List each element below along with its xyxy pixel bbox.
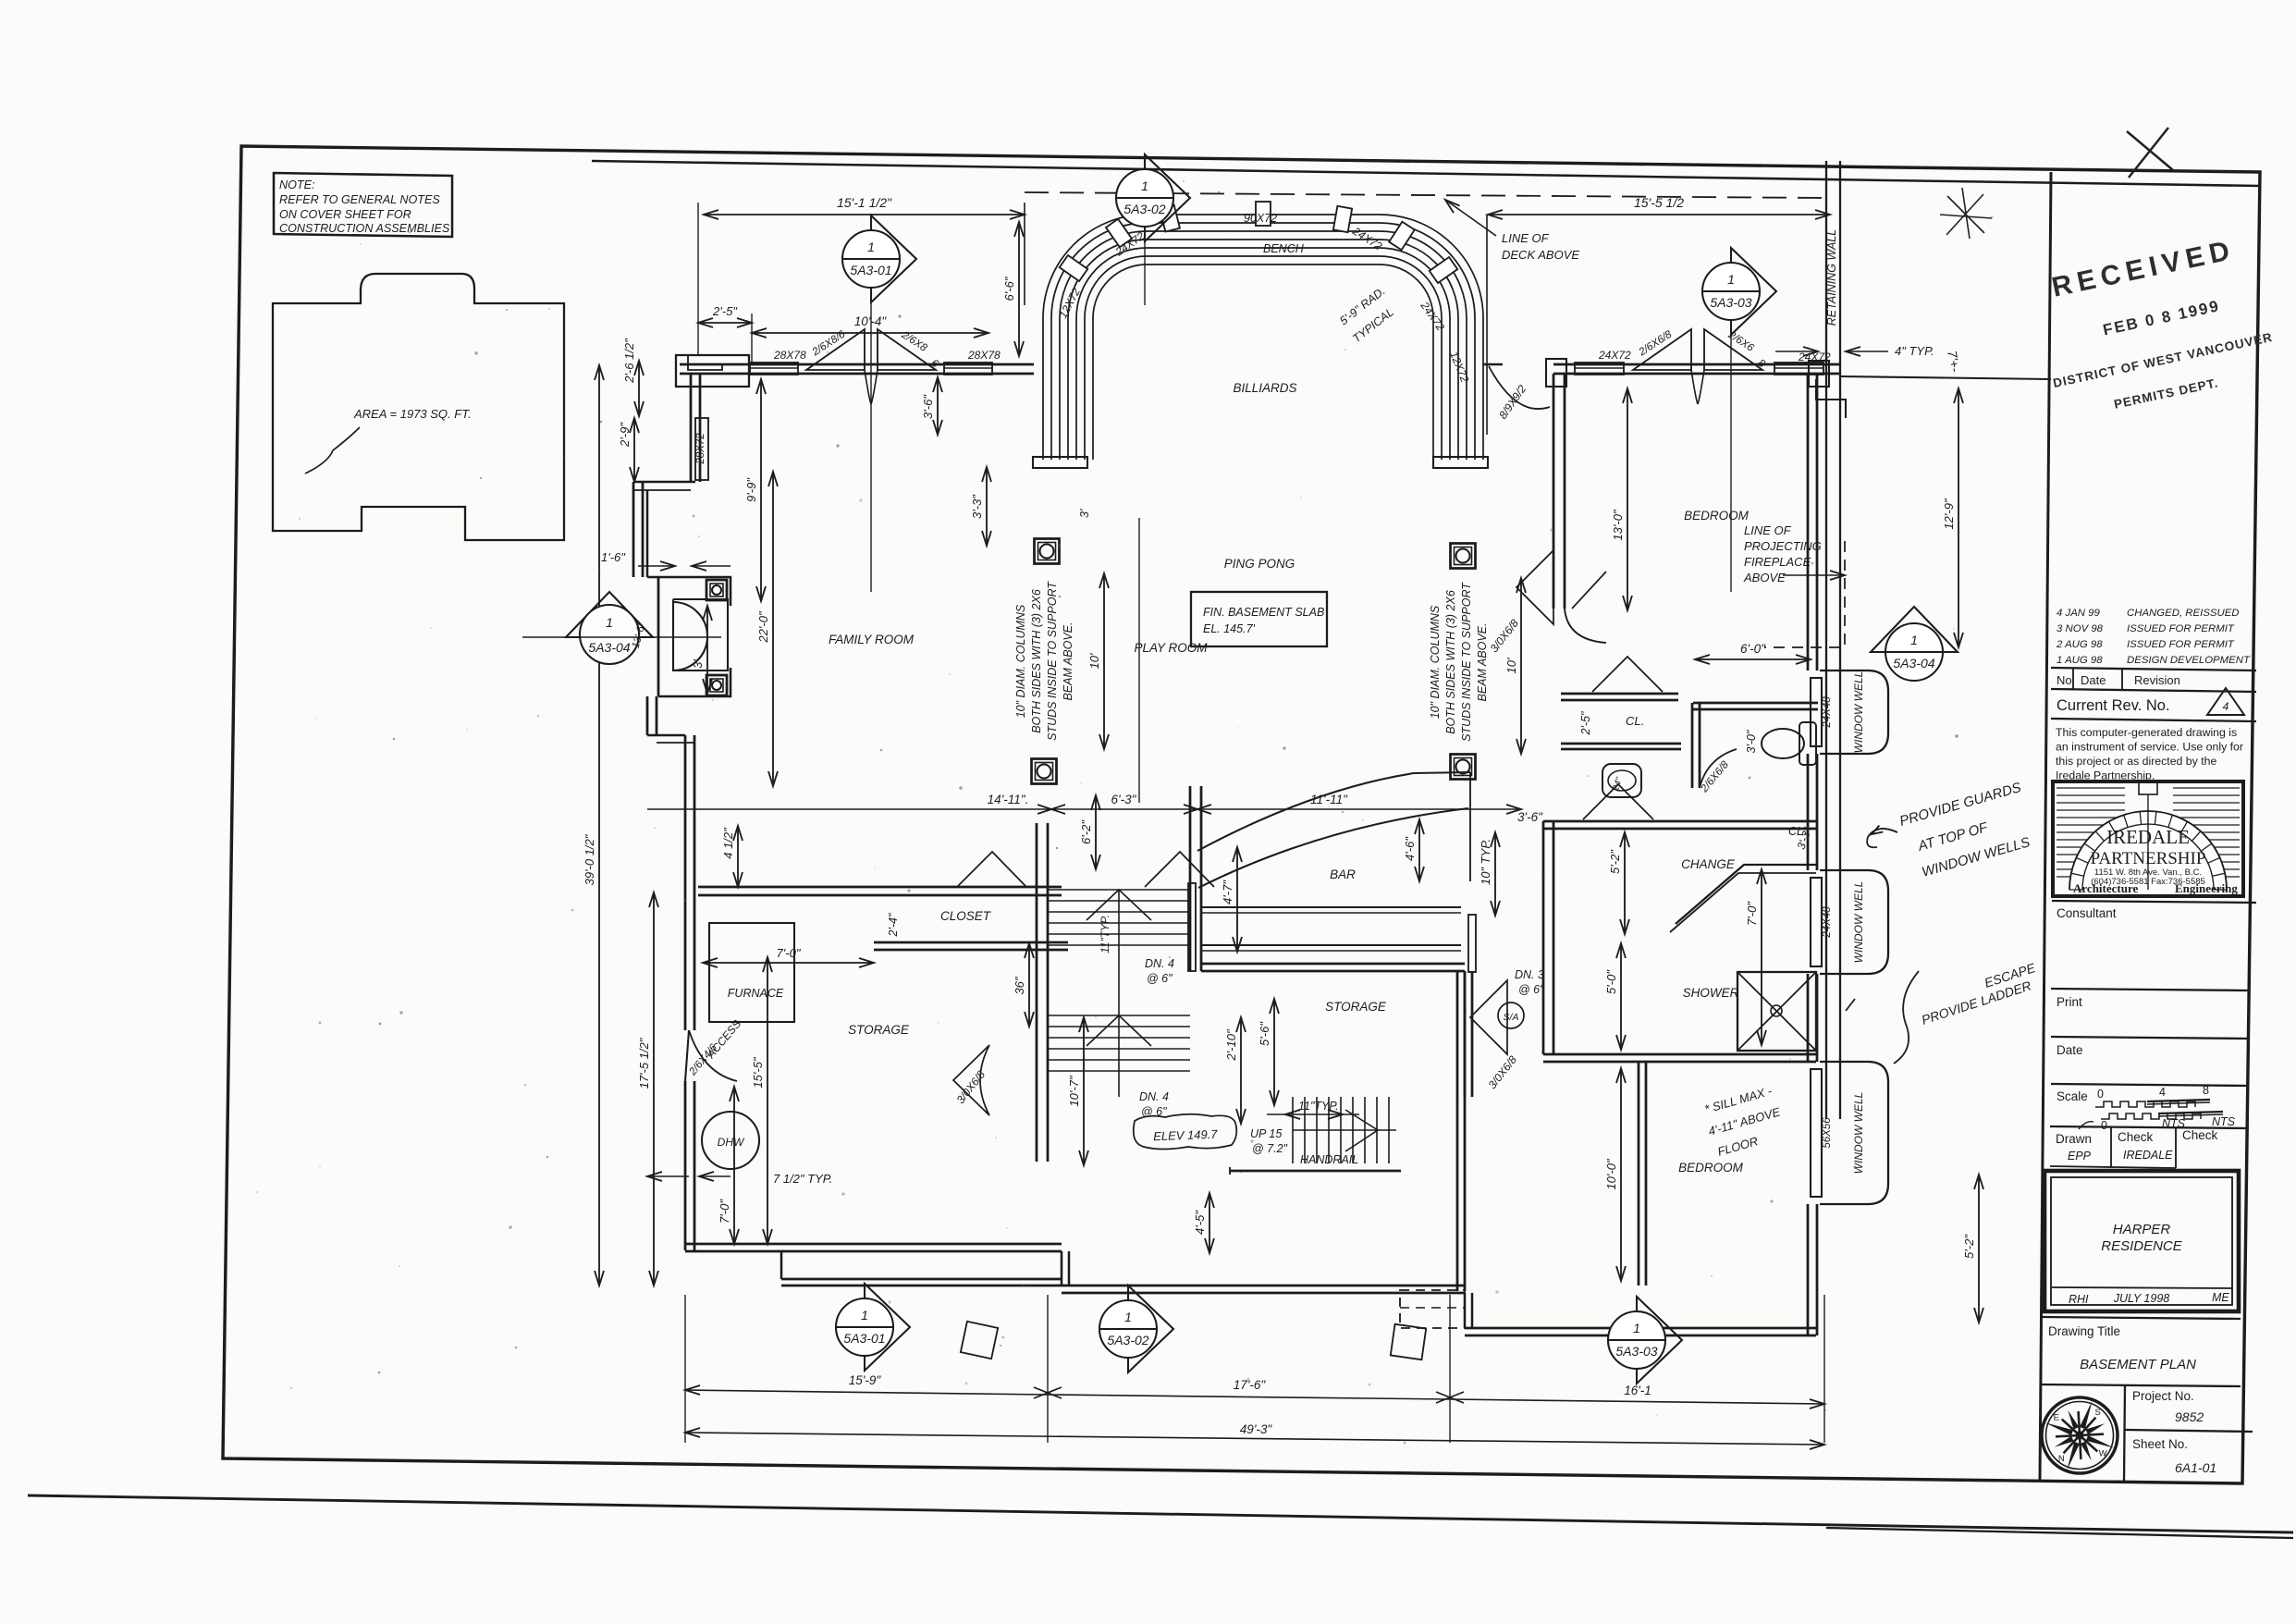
svg-text:STUDS INSIDE TO SUPPORT: STUDS INSIDE TO SUPPORT bbox=[1460, 582, 1473, 742]
svg-text:39'-0 1/2": 39'-0 1/2" bbox=[583, 833, 596, 885]
svg-text:@ 6": @ 6" bbox=[1147, 972, 1173, 985]
svg-text:28X78: 28X78 bbox=[967, 349, 1001, 362]
svg-text:CHANGE: CHANGE bbox=[1681, 857, 1736, 871]
svg-text:PROJECTING: PROJECTING bbox=[1744, 539, 1822, 553]
svg-text:28X78: 28X78 bbox=[773, 349, 806, 362]
svg-text:24X48: 24X48 bbox=[1822, 696, 1833, 729]
svg-text:ME: ME bbox=[2212, 1291, 2229, 1304]
svg-text:Project No.: Project No. bbox=[2132, 1389, 2194, 1403]
svg-text:3'-6": 3'-6" bbox=[921, 394, 935, 419]
svg-text:Architecture: Architecture bbox=[2073, 881, 2138, 895]
svg-text:WINDOW WELL: WINDOW WELL bbox=[1852, 671, 1865, 754]
svg-text:2'-10": 2'-10" bbox=[1224, 1028, 1238, 1062]
svg-text:9'-9": 9'-9" bbox=[744, 477, 758, 502]
svg-text:5A3-04: 5A3-04 bbox=[1893, 656, 1934, 671]
svg-text:49'-3": 49'-3" bbox=[1240, 1422, 1273, 1436]
svg-text:STORAGE: STORAGE bbox=[848, 1023, 910, 1037]
svg-text:HARPER: HARPER bbox=[2113, 1222, 2171, 1237]
svg-text:NTS: NTS bbox=[2212, 1115, 2236, 1128]
svg-text:RETAINING WALL: RETAINING WALL bbox=[1825, 229, 1838, 326]
svg-text:STUDS INSIDE TO SUPPORT: STUDS INSIDE TO SUPPORT bbox=[1046, 581, 1059, 741]
svg-text:28X72: 28X72 bbox=[695, 433, 706, 465]
svg-text:36": 36" bbox=[1013, 976, 1026, 994]
svg-text:EL. 145.7': EL. 145.7' bbox=[1203, 622, 1256, 635]
svg-text:10': 10' bbox=[1504, 658, 1518, 673]
svg-text:FIREPLACE: FIREPLACE bbox=[1744, 555, 1811, 569]
svg-text:Print: Print bbox=[2057, 995, 2082, 1009]
svg-text:BEAM ABOVE.: BEAM ABOVE. bbox=[1062, 622, 1074, 701]
svg-text:13'-0": 13'-0" bbox=[1611, 509, 1625, 541]
svg-text:Sheet No.: Sheet No. bbox=[2132, 1437, 2188, 1451]
svg-text:90X72: 90X72 bbox=[1244, 212, 1277, 225]
svg-text:DN. 3: DN. 3 bbox=[1515, 968, 1544, 981]
svg-text:4'-5": 4'-5" bbox=[1193, 1210, 1207, 1235]
svg-text:BEDROOM: BEDROOM bbox=[1684, 509, 1750, 523]
svg-text:PING PONG: PING PONG bbox=[1224, 557, 1295, 571]
svg-text:10" DIAM. COLUMNS: 10" DIAM. COLUMNS bbox=[1429, 605, 1442, 719]
svg-text:Drawing Title: Drawing Title bbox=[2048, 1324, 2120, 1338]
svg-text:5'-2": 5'-2" bbox=[1962, 1234, 1976, 1259]
svg-text:22'-0": 22'-0" bbox=[756, 610, 770, 644]
svg-text:SHOWER: SHOWER bbox=[1683, 986, 1739, 1000]
svg-text:2 AUG 98: 2 AUG 98 bbox=[2056, 639, 2103, 650]
svg-text:11'-11": 11'-11" bbox=[1310, 793, 1348, 806]
svg-text:No: No bbox=[2057, 673, 2072, 687]
svg-text:Scale: Scale bbox=[2057, 1089, 2088, 1103]
svg-text:4" TYP.: 4" TYP. bbox=[1895, 344, 1934, 358]
svg-text:RHI: RHI bbox=[2069, 1293, 2089, 1306]
svg-text:IREDALE: IREDALE bbox=[2123, 1149, 2173, 1162]
svg-text:5'-0": 5'-0" bbox=[1604, 969, 1618, 994]
svg-text:4 1/2": 4 1/2" bbox=[721, 827, 735, 859]
svg-text:4: 4 bbox=[2223, 700, 2229, 713]
svg-text:5A3-03: 5A3-03 bbox=[1615, 1344, 1657, 1359]
svg-text:N: N bbox=[2058, 1454, 2065, 1464]
svg-text:Current Rev. No.: Current Rev. No. bbox=[2057, 697, 2170, 714]
svg-text:LINE OF: LINE OF bbox=[1744, 523, 1792, 537]
svg-text:10" TYP.: 10" TYP. bbox=[1479, 839, 1492, 885]
svg-text:2'-5": 2'-5" bbox=[1579, 711, 1592, 735]
svg-text:W: W bbox=[2099, 1449, 2107, 1459]
svg-text:REFER TO GENERAL NOTES: REFER TO GENERAL NOTES bbox=[279, 193, 440, 206]
svg-text:IREDALE: IREDALE bbox=[2106, 826, 2190, 848]
svg-text:BENCH: BENCH bbox=[1263, 242, 1305, 255]
svg-text:EPP: EPP bbox=[2068, 1150, 2092, 1163]
svg-text:9852: 9852 bbox=[2175, 1409, 2204, 1424]
svg-text:2'-5": 2'-5" bbox=[712, 304, 738, 318]
svg-text:24X48: 24X48 bbox=[1822, 906, 1833, 939]
svg-text:15'-9": 15'-9" bbox=[849, 1373, 882, 1387]
svg-text:DHW: DHW bbox=[718, 1136, 745, 1149]
svg-text:7'-0": 7'-0" bbox=[718, 1199, 731, 1224]
svg-text:24X72: 24X72 bbox=[1598, 349, 1631, 362]
svg-text:NOTE:: NOTE: bbox=[279, 178, 314, 191]
svg-text:5A3-03: 5A3-03 bbox=[1710, 295, 1751, 310]
svg-text:5'-6": 5'-6" bbox=[1258, 1021, 1271, 1046]
svg-text:DECK ABOVE: DECK ABOVE bbox=[1502, 248, 1579, 262]
svg-text:10" DIAM. COLUMNS: 10" DIAM. COLUMNS bbox=[1014, 604, 1027, 718]
svg-text:3'-3": 3'-3" bbox=[970, 494, 984, 519]
svg-text:UP 15: UP 15 bbox=[1250, 1127, 1282, 1140]
svg-text:@ 7.2": @ 7.2" bbox=[1252, 1142, 1288, 1155]
svg-text:RESIDENCE: RESIDENCE bbox=[2101, 1238, 2183, 1254]
svg-text:5A3-02: 5A3-02 bbox=[1107, 1333, 1148, 1347]
svg-text:ISSUED FOR PERMIT: ISSUED FOR PERMIT bbox=[2127, 639, 2235, 650]
svg-text:E: E bbox=[2054, 1412, 2059, 1422]
svg-text:2'-6 1/2": 2'-6 1/2" bbox=[622, 338, 636, 384]
svg-text:5A3-01: 5A3-01 bbox=[843, 1331, 885, 1346]
svg-text:BOTH SIDES WITH (3) 2X6: BOTH SIDES WITH (3) 2X6 bbox=[1030, 589, 1043, 733]
svg-text:17'-5 1/2": 17'-5 1/2" bbox=[637, 1037, 651, 1089]
svg-text:0: 0 bbox=[2101, 1119, 2107, 1132]
svg-text:DN. 4: DN. 4 bbox=[1139, 1090, 1169, 1103]
svg-text:BOTH SIDES WITH (3) 2X6: BOTH SIDES WITH (3) 2X6 bbox=[1444, 590, 1457, 734]
svg-text:ABOVE: ABOVE bbox=[1743, 571, 1786, 584]
svg-text:1: 1 bbox=[1910, 633, 1918, 647]
svg-text:Check: Check bbox=[2118, 1130, 2154, 1144]
svg-text:ON COVER SHEET FOR: ON COVER SHEET FOR bbox=[279, 208, 411, 221]
svg-text:10'-4": 10'-4" bbox=[854, 314, 888, 328]
svg-text:8: 8 bbox=[2203, 1084, 2209, 1097]
svg-text:1 AUG 98: 1 AUG 98 bbox=[2057, 655, 2103, 666]
svg-text:5A3-01: 5A3-01 bbox=[850, 263, 891, 277]
svg-text:17'-6": 17'-6" bbox=[1234, 1378, 1267, 1392]
svg-text:3'-6": 3'-6" bbox=[1517, 810, 1543, 824]
svg-text:16'-1: 16'-1 bbox=[1624, 1384, 1651, 1397]
svg-text:0: 0 bbox=[2097, 1088, 2104, 1101]
svg-text:S/A: S/A bbox=[1504, 1012, 1519, 1023]
svg-text:HANDRAIL: HANDRAIL bbox=[1300, 1153, 1358, 1166]
svg-text:S: S bbox=[2095, 1408, 2101, 1418]
svg-text:BAR: BAR bbox=[1330, 867, 1356, 881]
svg-text:1: 1 bbox=[606, 615, 613, 630]
svg-text:11"TYP.: 11"TYP. bbox=[1099, 915, 1111, 953]
svg-text:an instrument of service. Use: an instrument of service. Use only for bbox=[2056, 741, 2243, 754]
svg-text:LINE OF: LINE OF bbox=[1502, 231, 1550, 245]
svg-text:10'-0": 10'-0" bbox=[1604, 1158, 1618, 1190]
svg-text:STORAGE: STORAGE bbox=[1325, 1000, 1387, 1014]
svg-text:6A1-01: 6A1-01 bbox=[2175, 1460, 2216, 1475]
svg-text:FIN. BASEMENT SLAB: FIN. BASEMENT SLAB bbox=[1203, 606, 1324, 619]
svg-text:2'-4": 2'-4" bbox=[887, 913, 900, 937]
svg-text:5A3-04: 5A3-04 bbox=[588, 640, 630, 655]
svg-text:This computer-generated drawin: This computer-generated drawing is bbox=[2056, 726, 2237, 739]
svg-text:6'-3": 6'-3" bbox=[1111, 793, 1137, 806]
svg-text:7'-0": 7'-0" bbox=[777, 946, 802, 960]
svg-text:4'-6": 4'-6" bbox=[1403, 836, 1417, 861]
svg-text:Drawn: Drawn bbox=[2056, 1132, 2092, 1146]
svg-text:@ 6": @ 6" bbox=[1518, 983, 1544, 996]
svg-text:14'-11".: 14'-11". bbox=[988, 793, 1029, 806]
svg-text:1: 1 bbox=[861, 1308, 868, 1323]
svg-text:JULY 1998: JULY 1998 bbox=[2113, 1292, 2170, 1305]
svg-text:4: 4 bbox=[2159, 1086, 2166, 1099]
svg-text:BASEMENT PLAN: BASEMENT PLAN bbox=[2080, 1357, 2196, 1372]
svg-text:CLOSET: CLOSET bbox=[940, 909, 992, 923]
svg-text:Engineering: Engineering bbox=[2175, 881, 2238, 895]
svg-text:1: 1 bbox=[1124, 1310, 1132, 1324]
svg-text:7'-0": 7'-0" bbox=[1745, 901, 1759, 926]
svg-text:BILLIARDS: BILLIARDS bbox=[1233, 381, 1296, 395]
svg-text:DN. 4: DN. 4 bbox=[1145, 957, 1174, 970]
svg-text:PARTNERSHIP: PARTNERSHIP bbox=[2091, 849, 2206, 868]
svg-text:2'-9": 2'-9" bbox=[618, 422, 632, 448]
svg-text:3'-0": 3'-0" bbox=[1745, 730, 1758, 753]
svg-text:15'-5 1/2: 15'-5 1/2 bbox=[1634, 195, 1684, 210]
svg-text:DESIGN DEVELOPMENT: DESIGN DEVELOPMENT bbox=[2127, 655, 2251, 666]
svg-text:WINDOW WELL: WINDOW WELL bbox=[1852, 881, 1865, 964]
svg-text:7 1/2" TYP.: 7 1/2" TYP. bbox=[773, 1172, 832, 1186]
svg-text:1'-6": 1'-6" bbox=[601, 550, 626, 564]
svg-text:1: 1 bbox=[1727, 272, 1735, 287]
svg-text:Consultant: Consultant bbox=[2057, 906, 2117, 920]
svg-text:3': 3' bbox=[1078, 509, 1091, 518]
svg-text:15'-5": 15'-5" bbox=[751, 1056, 765, 1089]
svg-text:1: 1 bbox=[1141, 178, 1148, 193]
svg-text:CHANGED, REISSUED: CHANGED, REISSUED bbox=[2127, 608, 2240, 619]
svg-text:12'-9": 12'-9" bbox=[1942, 498, 1956, 530]
svg-text:Date: Date bbox=[2081, 673, 2106, 687]
svg-text:BEDROOM: BEDROOM bbox=[1678, 1161, 1744, 1175]
svg-text:BEAM ABOVE.: BEAM ABOVE. bbox=[1476, 623, 1489, 702]
svg-text:5A3-02: 5A3-02 bbox=[1123, 202, 1165, 216]
svg-text:CL.: CL. bbox=[1626, 714, 1644, 728]
svg-text:WINDOW WELL: WINDOW WELL bbox=[1852, 1092, 1865, 1175]
svg-text:PLAY ROOM: PLAY ROOM bbox=[1134, 641, 1208, 655]
svg-text:10'-7": 10'-7" bbox=[1067, 1075, 1081, 1107]
svg-text:10': 10' bbox=[1087, 653, 1101, 669]
svg-text:ISSUED FOR PERMIT: ISSUED FOR PERMIT bbox=[2127, 623, 2235, 634]
svg-text:3': 3' bbox=[691, 659, 705, 669]
svg-text:this project or as directed by: this project or as directed by the bbox=[2056, 755, 2216, 768]
svg-text:Check: Check bbox=[2182, 1128, 2218, 1142]
svg-text:Date: Date bbox=[2057, 1043, 2083, 1057]
svg-text:FAMILY ROOM: FAMILY ROOM bbox=[829, 633, 915, 646]
svg-text:1: 1 bbox=[1633, 1321, 1640, 1335]
svg-text:3 NOV 98: 3 NOV 98 bbox=[2057, 623, 2104, 634]
svg-text:4'-7": 4'-7" bbox=[1221, 880, 1234, 904]
svg-text:4 JAN 99: 4 JAN 99 bbox=[2057, 608, 2101, 619]
svg-text:1: 1 bbox=[867, 240, 875, 254]
svg-text:6'-0": 6'-0" bbox=[1740, 642, 1766, 656]
svg-text:FURNACE: FURNACE bbox=[728, 987, 784, 1000]
svg-text:56X56: 56X56 bbox=[1822, 1117, 1833, 1149]
svg-text:6'-6": 6'-6" bbox=[1002, 276, 1016, 301]
svg-text:6'-2": 6'-2" bbox=[1079, 819, 1093, 844]
svg-text:15'-1 1/2": 15'-1 1/2" bbox=[837, 195, 892, 210]
svg-text:CONSTRUCTION ASSEMBLIES: CONSTRUCTION ASSEMBLIES bbox=[279, 222, 450, 235]
svg-text:AREA = 1973 SQ. FT.: AREA = 1973 SQ. FT. bbox=[353, 407, 472, 421]
svg-text:ELEV 149.7: ELEV 149.7 bbox=[1153, 1127, 1219, 1143]
svg-text:5'-2": 5'-2" bbox=[1608, 849, 1622, 874]
svg-text:Revision: Revision bbox=[2134, 673, 2180, 687]
